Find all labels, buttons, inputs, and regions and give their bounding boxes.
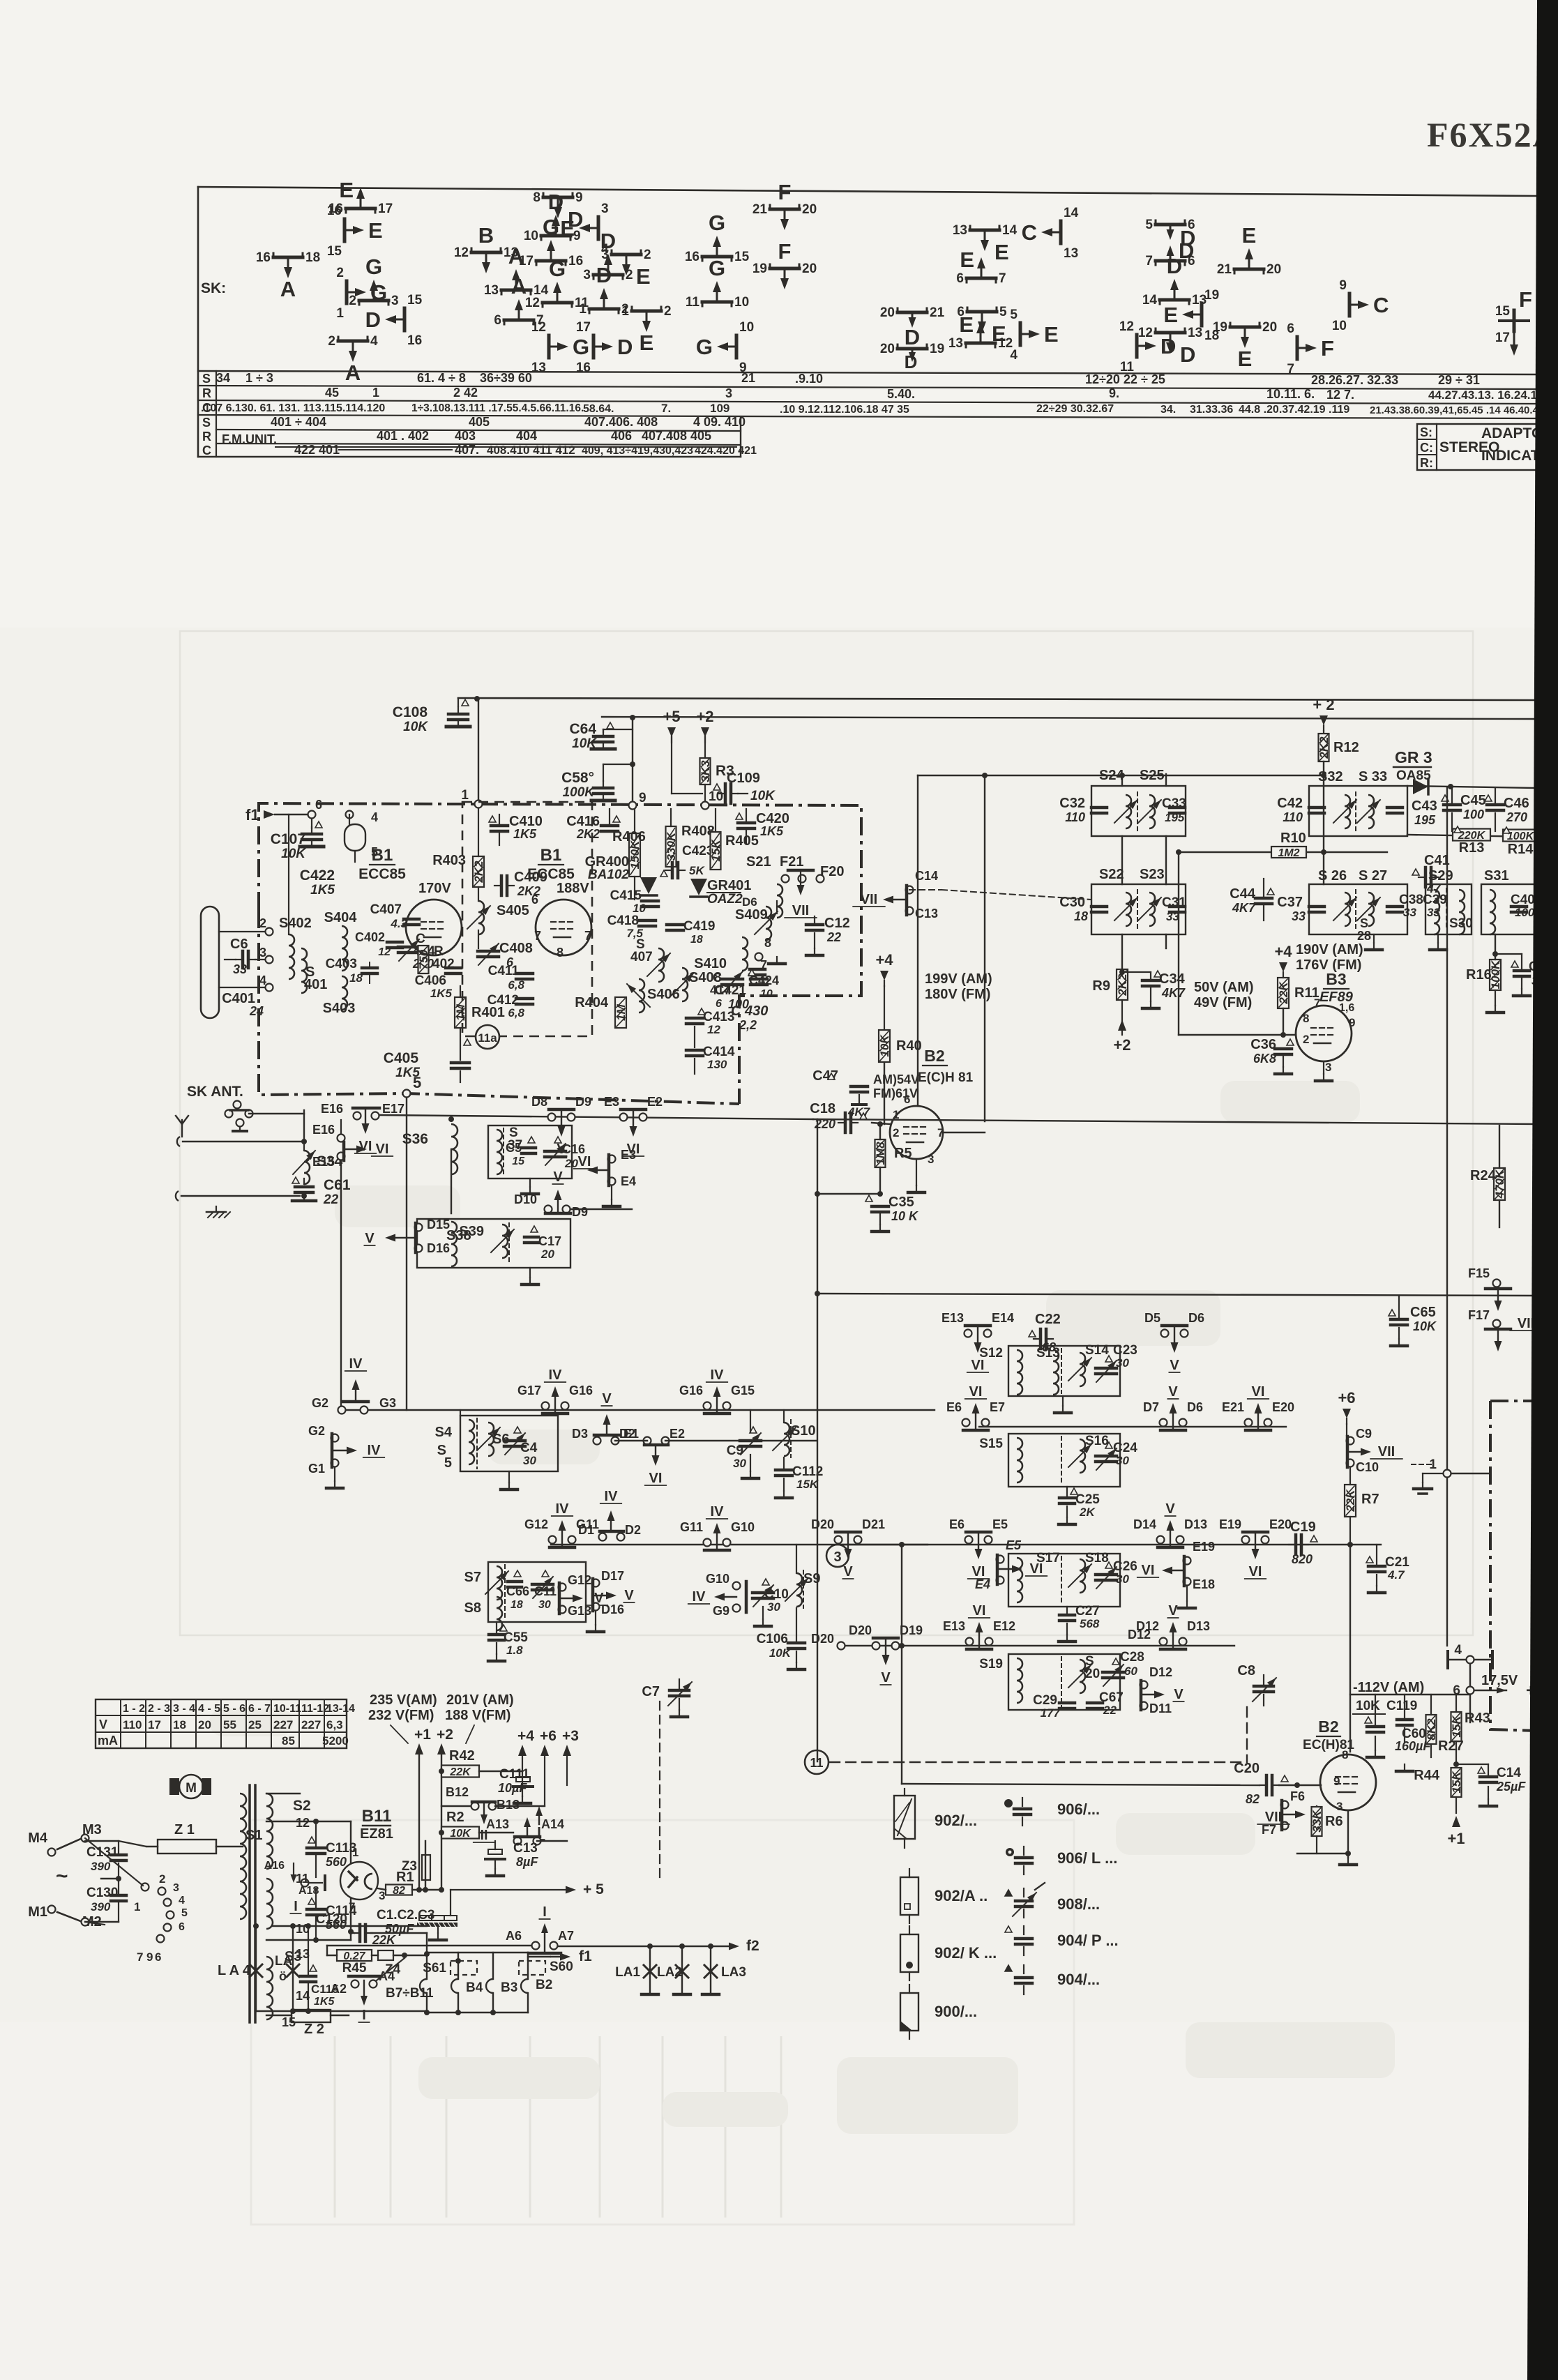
svg-text:S7: S7 <box>464 1570 481 1585</box>
svg-text:S:: S: <box>1420 425 1432 439</box>
svg-text:R6: R6 <box>1325 1814 1343 1829</box>
svg-text:B1: B1 <box>540 846 562 865</box>
svg-text:10K: 10K <box>750 789 776 803</box>
svg-text:2: 2 <box>1303 1033 1309 1046</box>
svg-text:34.: 34. <box>1160 404 1176 416</box>
capacitor C29 <box>1059 1701 1075 1705</box>
svg-text:M1: M1 <box>28 1904 47 1920</box>
legend 902K symbol <box>900 1934 918 1972</box>
svg-text:C55: C55 <box>504 1630 528 1645</box>
wire vertical x686 to FM box <box>478 699 479 803</box>
svg-text:12: 12 <box>707 1023 720 1036</box>
resistor R3 <box>700 758 711 785</box>
svg-text:2: 2 <box>644 248 651 262</box>
svg-text:9: 9 <box>575 190 583 205</box>
capacitor C411 <box>516 972 533 976</box>
svg-text:5 - 6: 5 - 6 <box>223 1703 245 1715</box>
capacitor C421 <box>748 969 755 976</box>
svg-text:E: E <box>636 264 651 289</box>
svg-text:188V: 188V <box>557 881 589 896</box>
SK symbol D up 7-6 <box>1156 259 1185 263</box>
svg-text:E3: E3 <box>621 1148 636 1162</box>
svg-text:C45: C45 <box>1460 793 1486 808</box>
svg-text:20: 20 <box>1266 262 1281 277</box>
svg-text:E: E <box>1163 303 1178 327</box>
IF box S29 S30 <box>1425 884 1472 934</box>
svg-text:E4: E4 <box>975 1577 990 1591</box>
contact G11-G10 <box>704 1539 711 1547</box>
gnd B2 <box>916 1159 917 1185</box>
svg-text:S406: S406 <box>647 987 680 1002</box>
svg-text:E20: E20 <box>1269 1517 1292 1531</box>
svg-text:18: 18 <box>349 971 363 985</box>
capacitor C420 <box>736 813 743 819</box>
svg-text:11: 11 <box>1120 360 1135 374</box>
triode B2a <box>890 1106 943 1159</box>
svg-text:F15: F15 <box>1468 1266 1490 1280</box>
svg-text:B2: B2 <box>536 1978 552 1992</box>
FM dipole antenna <box>201 907 219 1018</box>
svg-text:15: 15 <box>1495 304 1511 319</box>
svg-text:11a: 11a <box>478 1031 497 1045</box>
svg-text:8µF: 8µF <box>516 1855 538 1869</box>
SK symbol F right 6/7 <box>1296 337 1299 359</box>
svg-text:14: 14 <box>1142 293 1158 308</box>
svg-text:C38: C38 <box>1399 893 1423 907</box>
svg-text:R2: R2 <box>446 1810 464 1825</box>
svg-text:17,5V: 17,5V <box>1481 1673 1518 1688</box>
SK symbol D down 20-21 <box>898 311 927 314</box>
capacitor C424 <box>750 968 765 971</box>
svg-text:407.: 407. <box>455 443 479 457</box>
svg-text:407.406. 408: 407.406. 408 <box>584 415 658 429</box>
resistor R404 <box>615 997 626 1028</box>
svg-text:B13: B13 <box>497 1798 520 1812</box>
svg-text:408.410 411 412: 408.410 411 412 <box>487 444 575 457</box>
contact 4 <box>1467 1656 1474 1664</box>
svg-text:13-14: 13-14 <box>326 1703 355 1715</box>
svg-text:C11: C11 <box>534 1584 557 1598</box>
svg-text:10K: 10K <box>769 1646 792 1660</box>
svg-text:D6: D6 <box>1188 1311 1204 1325</box>
svg-text:11: 11 <box>686 295 700 310</box>
svg-text:55: 55 <box>223 1718 236 1731</box>
resistor R27 <box>1426 1715 1437 1744</box>
contact E19-E20 row3 <box>1242 1536 1250 1544</box>
svg-text:45: 45 <box>325 386 339 400</box>
lamp LA4 LA6 <box>255 1926 257 2011</box>
svg-text:C65: C65 <box>1410 1305 1436 1320</box>
SK symbol C left 14/13 <box>1059 221 1063 243</box>
svg-text:G: G <box>365 255 382 279</box>
svg-text:406: 406 <box>611 429 632 443</box>
svg-text:C130: C130 <box>86 1886 118 1900</box>
svg-text:G: G <box>696 335 713 359</box>
svg-text:19: 19 <box>930 342 944 356</box>
chassis ground <box>303 1201 305 1206</box>
mains transformer primary S1 <box>240 1794 246 1919</box>
svg-text:R: R <box>202 430 211 444</box>
svg-text:G16: G16 <box>569 1384 593 1397</box>
svg-text:C120: C120 <box>316 1912 347 1927</box>
svg-text:16: 16 <box>685 250 699 264</box>
svg-text:20: 20 <box>1085 1667 1100 1681</box>
svg-text:E: E <box>640 331 654 355</box>
svg-text:100: 100 <box>728 997 749 1011</box>
svg-text:V: V <box>624 1588 634 1603</box>
svg-text:+1: +1 <box>1447 1830 1465 1847</box>
svg-text:C:: C: <box>1420 441 1433 455</box>
svg-text:14: 14 <box>1064 206 1079 220</box>
svg-text:6,8: 6,8 <box>508 978 524 992</box>
svg-text:6: 6 <box>531 893 538 907</box>
resistor R45 <box>337 1950 372 1961</box>
svg-text:17: 17 <box>1495 331 1510 345</box>
resistor R12 <box>1319 734 1329 761</box>
svg-text:906/ L ...: 906/ L ... <box>1057 1849 1117 1867</box>
legend 908 symbol <box>1005 1890 1012 1896</box>
svg-text:M4: M4 <box>28 1831 48 1846</box>
svg-text:C37: C37 <box>1277 895 1303 910</box>
svg-text:S23: S23 <box>1140 867 1165 882</box>
wire -112 rail <box>1350 1694 1470 1695</box>
svg-text:1: 1 <box>461 788 469 803</box>
svg-text:C36: C36 <box>1250 1037 1276 1052</box>
svg-text:11: 11 <box>810 1756 823 1770</box>
svg-text:2K2: 2K2 <box>472 861 485 884</box>
svg-text:R16: R16 <box>1466 967 1492 983</box>
svg-text:B1: B1 <box>372 846 393 865</box>
dashed line from C7 <box>659 1701 660 1883</box>
svg-text:2: 2 <box>626 268 633 282</box>
svg-text:+6: +6 <box>540 1728 557 1744</box>
svg-text:49V (FM): 49V (FM) <box>1194 995 1252 1010</box>
svg-text:3: 3 <box>928 1153 934 1166</box>
svg-text:F: F <box>1519 287 1532 312</box>
svg-text:V: V <box>1168 1384 1178 1400</box>
SK symbol A up 13-14 <box>501 289 531 292</box>
svg-text:2: 2 <box>893 1126 899 1139</box>
svg-text:1M2: 1M2 <box>1278 847 1299 859</box>
svg-text:1: 1 <box>336 306 344 321</box>
resistor R408 <box>666 826 676 867</box>
svg-text:C47: C47 <box>812 1068 838 1084</box>
wires between IF boxes <box>1121 836 1123 884</box>
svg-text:R9: R9 <box>1092 978 1110 994</box>
SK symbol G up 12-11 <box>543 301 572 305</box>
svg-text:G13: G13 <box>568 1604 591 1618</box>
contact E13-E12 <box>966 1638 974 1646</box>
svg-text:2: 2 <box>259 916 266 930</box>
svg-text:9: 9 <box>1333 1775 1340 1788</box>
svg-text:C35: C35 <box>888 1195 914 1210</box>
svg-text:227: 227 <box>273 1718 293 1731</box>
IF box S31 C40 <box>1481 884 1537 934</box>
contact E13-E14 <box>965 1330 972 1337</box>
varcap C408 <box>478 950 499 953</box>
svg-text:S60: S60 <box>550 1960 573 1974</box>
svg-text:R44: R44 <box>1414 1768 1440 1783</box>
svg-text:5: 5 <box>999 305 1007 319</box>
svg-text:G1: G1 <box>308 1462 325 1476</box>
gnd node1 <box>1423 1473 1443 1474</box>
svg-text:22: 22 <box>1103 1704 1117 1717</box>
svg-text:E2: E2 <box>647 1095 663 1109</box>
svg-text:5200: 5200 <box>322 1734 349 1748</box>
svg-text:D12: D12 <box>1128 1628 1151 1642</box>
svg-text:GR 3: GR 3 <box>1395 748 1432 766</box>
capacitor C414 <box>686 1049 703 1052</box>
svg-text:24: 24 <box>249 1004 264 1018</box>
svg-text:C26: C26 <box>1113 1559 1137 1574</box>
svg-text:110: 110 <box>1283 810 1303 824</box>
svg-text:GR401: GR401 <box>707 878 751 893</box>
svg-text:3: 3 <box>1325 1061 1331 1074</box>
SK symbol A up 6-7 <box>504 319 534 322</box>
svg-text:S21: S21 <box>746 854 771 870</box>
svg-text:SK:: SK: <box>201 280 226 296</box>
svg-text:18: 18 <box>305 250 320 265</box>
svg-text:3 - 4: 3 - 4 <box>173 1703 195 1715</box>
coil S39 <box>502 1225 508 1258</box>
svg-text:109: 109 <box>710 402 729 415</box>
svg-text:18: 18 <box>510 1599 523 1611</box>
svg-text:E1: E1 <box>623 1427 639 1441</box>
svg-text:3: 3 <box>833 1549 841 1565</box>
svg-text:30: 30 <box>1116 1572 1129 1586</box>
svg-text:C413: C413 <box>703 1010 734 1024</box>
wire antenna up to switch <box>303 1110 305 1142</box>
capacitor C64 <box>603 729 633 730</box>
fuse Z2 <box>292 2010 331 2022</box>
FM unit dash-dot border <box>259 803 861 1104</box>
svg-text:C34: C34 <box>1159 971 1186 987</box>
svg-text:C41: C41 <box>1424 853 1450 868</box>
svg-text:12: 12 <box>1119 319 1134 334</box>
capacitor C14 audio <box>1478 1767 1485 1773</box>
wire S3 to lamps <box>272 1925 427 1927</box>
svg-text:22: 22 <box>323 1192 339 1207</box>
svg-text:5: 5 <box>444 1455 452 1471</box>
svg-text:6 - 7: 6 - 7 <box>248 1703 271 1715</box>
legend 906L symbol <box>1006 1848 1014 1856</box>
svg-text:C18: C18 <box>810 1101 835 1116</box>
svg-text:E20: E20 <box>1272 1400 1294 1414</box>
svg-text:C22: C22 <box>1035 1312 1061 1327</box>
svg-text:B3: B3 <box>1326 970 1346 988</box>
svg-text:401 ÷ 404: 401 ÷ 404 <box>271 415 326 429</box>
contact D12-D13 row4 <box>1160 1638 1167 1646</box>
svg-text:902/A ..: 902/A .. <box>935 1887 988 1904</box>
wire rail y1112 <box>918 775 1324 776</box>
svg-text:V: V <box>881 1670 891 1685</box>
svg-text:2K2: 2K2 <box>576 827 600 841</box>
dashed circuit 11 line <box>805 1750 829 1774</box>
svg-text:F: F <box>778 239 792 264</box>
wire row y2215 <box>551 1544 928 1545</box>
coil S9 <box>796 1573 802 1607</box>
svg-text:15: 15 <box>407 293 423 308</box>
wire IF bottom y1197 <box>1308 836 1310 844</box>
svg-text:S: S <box>1360 916 1368 930</box>
wire grid B2 to C18 <box>817 1193 880 1195</box>
svg-text:4: 4 <box>371 810 378 824</box>
svg-text:902/ K ...: 902/ K ... <box>935 1944 997 1962</box>
wire row3 right y2215 <box>841 1544 1381 1545</box>
capacitor C109 <box>713 784 720 790</box>
svg-text:D9: D9 <box>572 1205 588 1219</box>
svg-text:A: A <box>280 277 296 301</box>
svg-text:C: C <box>1373 293 1389 317</box>
svg-text:1: 1 <box>579 302 587 317</box>
svg-text:E16: E16 <box>321 1102 343 1116</box>
contact E6-E7 <box>962 1419 970 1427</box>
IF box S15 S16 C24 C25 <box>1008 1434 1120 1487</box>
svg-text:V: V <box>99 1718 107 1731</box>
contact D7-D6 <box>1160 1419 1167 1427</box>
svg-text:E: E <box>339 178 354 202</box>
svg-text:6: 6 <box>315 798 322 812</box>
svg-text:E: E <box>960 248 974 272</box>
svg-text:S: S <box>202 372 211 386</box>
svg-text:G15: G15 <box>731 1384 755 1397</box>
svg-text:G10: G10 <box>706 1572 729 1586</box>
svg-text:D16: D16 <box>427 1241 450 1255</box>
svg-text:1M: 1M <box>454 1003 467 1020</box>
svg-text:25: 25 <box>248 1718 262 1731</box>
svg-text:.107 6.130. 61. 131. 113.11: .107 6.130. 61. 131. 113.115.114.120 <box>201 402 385 414</box>
svg-text:E15: E15 <box>312 1155 335 1169</box>
wire y1855 to F15 <box>817 1294 1537 1296</box>
IF transformer box S24 S25 <box>1091 786 1186 836</box>
capacitor C107 <box>308 811 316 819</box>
svg-text:3: 3 <box>583 268 591 282</box>
SK symbol E down 1-2 <box>632 310 661 313</box>
svg-text:D14: D14 <box>1133 1517 1156 1531</box>
svg-text:22K: 22K <box>1277 981 1290 1005</box>
motor M <box>179 1775 203 1798</box>
wire from R12 to boxes <box>1280 775 1324 776</box>
svg-text:60: 60 <box>1124 1665 1137 1678</box>
svg-text:C414: C414 <box>703 1045 735 1059</box>
heater bus wire <box>327 1945 531 1946</box>
svg-text:VII: VII <box>792 903 809 918</box>
svg-text:C21: C21 <box>1385 1555 1409 1570</box>
svg-text:C112: C112 <box>792 1464 823 1479</box>
SK symbol E left 19/18 <box>1200 303 1204 326</box>
svg-text:20: 20 <box>880 305 895 320</box>
svg-text:S10: S10 <box>791 1423 816 1439</box>
switch S60 <box>519 1961 545 1975</box>
svg-text:LA3: LA3 <box>721 1965 746 1980</box>
svg-text:8: 8 <box>557 946 564 960</box>
svg-text:VII: VII <box>1378 1444 1395 1460</box>
svg-text:S31: S31 <box>1484 868 1509 884</box>
triode B2b <box>1320 1754 1376 1810</box>
svg-text:~: ~ <box>56 1865 68 1888</box>
svg-text:82: 82 <box>1246 1792 1260 1806</box>
svg-text:E: E <box>1044 322 1059 347</box>
diode GR3 <box>1407 786 1537 788</box>
svg-text:R1: R1 <box>396 1870 414 1885</box>
svg-text:404: 404 <box>516 429 537 443</box>
gnd under S27 <box>1373 934 1375 943</box>
svg-text:18: 18 <box>173 1718 186 1731</box>
svg-text:ECC85: ECC85 <box>527 866 575 882</box>
svg-text:S16: S16 <box>1085 1434 1109 1448</box>
circled 3 <box>826 1545 849 1567</box>
resistor R40 <box>879 1030 890 1062</box>
capacitor C58 <box>603 764 633 765</box>
svg-text:7: 7 <box>584 929 591 943</box>
svg-text:I: I <box>543 1904 547 1920</box>
svg-text:F.M.UNIT.: F.M.UNIT. <box>222 432 277 446</box>
wire vertical x907 <box>630 715 635 720</box>
capacitor C112 <box>776 1469 792 1472</box>
svg-text:V: V <box>843 1564 853 1579</box>
capacitor C46 <box>1485 795 1492 801</box>
svg-text:C418: C418 <box>607 914 639 928</box>
svg-text:28: 28 <box>1357 929 1371 943</box>
svg-text:D11: D11 <box>1149 1701 1172 1715</box>
svg-text:F: F <box>1321 336 1334 361</box>
svg-text:10K: 10K <box>1413 1319 1437 1333</box>
svg-text:3: 3 <box>391 294 399 308</box>
label 11a <box>476 1025 499 1049</box>
svg-text:C24: C24 <box>1113 1441 1137 1455</box>
svg-text:390: 390 <box>91 1860 111 1873</box>
svg-text:C13: C13 <box>513 1841 538 1856</box>
svg-text:16: 16 <box>327 204 342 218</box>
svg-text:C64: C64 <box>569 721 596 737</box>
SK symbol E up 6-7 <box>967 277 996 280</box>
svg-text:906/...: 906/... <box>1057 1801 1100 1818</box>
svg-text:8: 8 <box>1303 1012 1309 1025</box>
svg-text:22K: 22K <box>1344 1489 1357 1513</box>
svg-text:20: 20 <box>1262 320 1277 335</box>
contact E21-E20 <box>1245 1419 1253 1427</box>
oscillator box S38 S39 C17 <box>417 1219 570 1268</box>
SK symbol F down 15-17 <box>1513 310 1516 331</box>
svg-text:3: 3 <box>1336 1800 1343 1813</box>
svg-text:12: 12 <box>378 946 391 958</box>
resistor R5 <box>875 1139 886 1167</box>
svg-text:195: 195 <box>1165 811 1185 824</box>
svg-text:C419: C419 <box>683 919 715 934</box>
svg-text:7.: 7. <box>661 402 671 415</box>
svg-text:227: 227 <box>301 1718 321 1731</box>
svg-text:3: 3 <box>725 386 732 400</box>
svg-text:C412: C412 <box>487 993 519 1008</box>
gnd under S410 <box>776 901 778 914</box>
svg-text:R5: R5 <box>894 1146 912 1161</box>
svg-text:3: 3 <box>379 1889 385 1902</box>
svg-text:5K: 5K <box>689 864 705 877</box>
trimmer S405 <box>478 901 484 934</box>
svg-text:G: G <box>709 211 725 235</box>
capacitor C61 <box>303 1178 305 1184</box>
svg-text:IV: IV <box>605 1489 619 1504</box>
svg-text:12: 12 <box>1138 326 1153 340</box>
svg-text:B4: B4 <box>466 1980 483 1995</box>
svg-text:7: 7 <box>1287 362 1294 377</box>
svg-text:VI: VI <box>359 1139 372 1154</box>
svg-text:VI: VI <box>578 1154 591 1169</box>
svg-text:LA1: LA1 <box>615 1965 640 1980</box>
resistor R7 <box>1345 1485 1356 1517</box>
capacitor C106 <box>788 1642 805 1645</box>
diode GR401 <box>690 879 707 895</box>
